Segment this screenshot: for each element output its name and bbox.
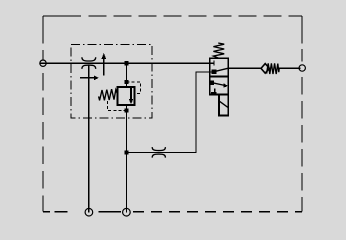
spring on outlet line: coil diamond xyxy=(261,64,269,74)
pressure compensator valve body xyxy=(118,87,135,105)
wire: metered flow line to valve lower port xyxy=(127,72,214,153)
arrow up indicator xyxy=(103,57,105,76)
port T2 bottom circle xyxy=(123,208,131,216)
arrow right indicator xyxy=(80,77,94,79)
throttle V2 upper arc xyxy=(152,147,165,151)
compensator spring xyxy=(99,89,118,100)
junction J1 on main line xyxy=(124,61,128,65)
port A right circle xyxy=(299,65,305,71)
flow path (bottom box) xyxy=(210,82,225,85)
flow diagonal (top box) xyxy=(214,68,228,72)
wire: branch down to compensator xyxy=(126,63,128,87)
port P left circle xyxy=(40,60,46,66)
junction J2 pilot tap xyxy=(124,80,128,84)
compensator internal arrow xyxy=(130,88,132,100)
pilot box diagonal xyxy=(219,101,228,107)
valve return spring (top) xyxy=(213,43,224,58)
enclosure dashed border: right edge xyxy=(301,16,303,43)
pilot actuation box (below valve) xyxy=(219,95,228,116)
port T1 bottom circle xyxy=(85,208,93,216)
pilot line dashed (top tap to right side of compensator) xyxy=(127,82,141,93)
enclosure dashed border: left edge xyxy=(42,16,44,44)
pilot drain dashed (spring side to downstream) xyxy=(108,101,127,111)
port blob (bottom box) xyxy=(210,80,214,84)
blocked port stub (bottom box) xyxy=(211,88,217,93)
enclosure dashed border: top edge xyxy=(43,15,81,17)
wire: main pressure line P to valve xyxy=(40,62,214,64)
directional valve position divider xyxy=(210,75,229,77)
arrowhead on flow diagonal xyxy=(212,70,217,75)
arrowhead right (bottom box) xyxy=(223,83,228,88)
directional valve body (two positions) xyxy=(210,58,229,94)
junction J4 metered branch xyxy=(124,150,128,154)
throttle V1 upper arc xyxy=(82,57,96,61)
wire: branch from throttle down to tank port xyxy=(88,65,90,212)
blocked port T (top box) xyxy=(213,61,215,66)
throttle V2 lower arc xyxy=(152,154,165,158)
wire: valve out to port A xyxy=(228,67,260,69)
throttle V1 lower arc xyxy=(82,65,96,69)
wire: compensator out down to tank port 2 xyxy=(126,105,128,213)
flow-control-valve component dashed box xyxy=(71,45,152,119)
spring on outlet line: zigzag xyxy=(267,63,280,74)
junction J3 drain tap xyxy=(124,109,128,113)
enclosure dashed border: bottom edge xyxy=(43,211,85,213)
